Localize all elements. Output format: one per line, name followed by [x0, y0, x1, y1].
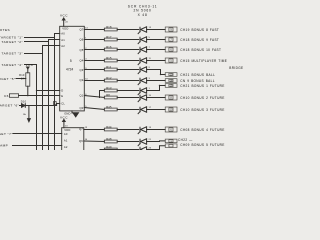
svg-text:CH21 BONUS BALL: CH21 BONUS BALL — [180, 73, 215, 77]
svg-text:A1: A1 — [61, 38, 65, 42]
svg-text:Q0: Q0 — [80, 106, 84, 110]
svg-text:CH09 BONUS 5 FUTURE: CH09 BONUS 5 FUTURE — [180, 143, 224, 147]
svg-text:R8: R8 — [106, 93, 110, 97]
svg-text:CN 9 BONUS BALL: CN 9 BONUS BALL — [180, 79, 215, 83]
svg-text:TARGET "5": TARGET "5" — [0, 77, 16, 81]
svg-text:CH19 BONUS 8 FAST: CH19 BONUS 8 FAST — [180, 28, 219, 32]
svg-text:Q7: Q7 — [79, 127, 83, 131]
svg-text:VDD: VDD — [64, 128, 70, 132]
svg-text:CH15 MULTIPLAYER TIME: CH15 MULTIPLAYER TIME — [180, 59, 227, 63]
svg-text:TARGET "6": TARGET "6" — [0, 103, 19, 107]
svg-text:R18: R18 — [106, 25, 112, 29]
svg-text:R11: R11 — [106, 65, 112, 69]
svg-text:R16: R16 — [106, 45, 112, 49]
svg-text:R17: R17 — [106, 35, 112, 39]
svg-text:5: 5 — [70, 59, 72, 63]
svg-text:R15: R15 — [106, 56, 112, 60]
svg-text:VCC: VCC — [26, 63, 34, 67]
svg-text:Q6: Q6 — [80, 38, 84, 42]
svg-text:CL: CL — [61, 101, 65, 105]
svg-text:Q2: Q2 — [80, 78, 84, 82]
svg-text:CH18 BONUS 10 FAST: CH18 BONUS 10 FAST — [180, 48, 221, 52]
svg-text:CH21 BONUS 1 FUTURE: CH21 BONUS 1 FUTURE — [180, 84, 224, 88]
svg-text:R10: R10 — [19, 73, 25, 77]
svg-text:Q4: Q4 — [80, 58, 84, 62]
svg-text:1K: 1K — [21, 77, 25, 81]
svg-text:BRIDGE: BRIDGE — [229, 66, 243, 70]
svg-text:D: D — [61, 89, 63, 93]
svg-text:TARGET "7": TARGET "7" — [0, 132, 13, 136]
svg-text:A0: A0 — [64, 132, 68, 136]
svg-text:4724: 4724 — [66, 67, 73, 71]
svg-text:A2: A2 — [64, 145, 68, 149]
svg-text:CH18 BONUS 9 FAST: CH18 BONUS 9 FAST — [180, 38, 219, 42]
svg-text:C6: C6 — [4, 94, 9, 98]
svg-text:R45: R45 — [106, 105, 112, 109]
svg-text:A1: A1 — [64, 138, 68, 142]
svg-text:Q6: Q6 — [79, 139, 83, 143]
svg-text:NOTES: NOTES — [0, 28, 10, 32]
svg-text:VCC: VCC — [60, 116, 68, 120]
svg-text:TARGET "3": TARGET "3" — [1, 52, 23, 56]
svg-text:GND: GND — [64, 111, 70, 115]
svg-text:VDD: VDD — [62, 27, 68, 31]
svg-text:CH22 —: CH22 — — [178, 138, 193, 142]
svg-text:LAMP: LAMP — [0, 144, 8, 148]
svg-text:Q1: Q1 — [80, 94, 84, 98]
svg-text:CH10 BONUS 2 FUTURE: CH10 BONUS 2 FUTURE — [180, 96, 224, 100]
svg-text:R13: R13 — [106, 86, 112, 90]
svg-text:R49: R49 — [106, 145, 112, 149]
svg-text:A0: A0 — [61, 32, 65, 36]
svg-text:R44: R44 — [106, 125, 112, 129]
svg-text:E: E — [61, 94, 63, 98]
svg-text:Q5: Q5 — [80, 48, 84, 52]
svg-text:CH10 BONUS 3 FUTURE: CH10 BONUS 3 FUTURE — [180, 108, 224, 112]
svg-text:R48: R48 — [106, 137, 112, 141]
svg-text:D10: D10 — [21, 99, 27, 103]
svg-text:TARGET "4": TARGET "4" — [1, 63, 23, 67]
svg-text:Q3: Q3 — [80, 68, 84, 72]
svg-text:A2: A2 — [61, 44, 65, 48]
svg-text:VCC: VCC — [60, 13, 68, 17]
svg-text:TARGET "2": TARGET "2" — [1, 40, 23, 44]
svg-text:X 48: X 48 — [138, 13, 148, 17]
svg-text:R12: R12 — [106, 76, 112, 80]
svg-text:CH08 BONUS 4 FUTURE: CH08 BONUS 4 FUTURE — [180, 128, 224, 132]
svg-text:Q7: Q7 — [80, 27, 84, 31]
